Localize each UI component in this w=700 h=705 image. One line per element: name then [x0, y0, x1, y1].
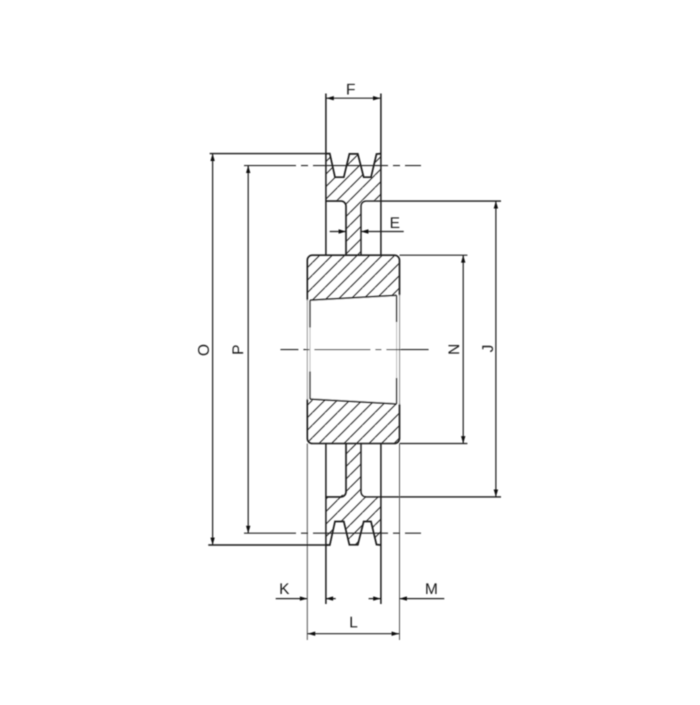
rim left edge bottom: [325, 444, 327, 605]
dimension N: [462, 255, 464, 443]
bore top taper line: [310, 295, 397, 300]
pitch line top (dash-dot): [244, 165, 421, 167]
hatch: top rim band: [326, 154, 381, 202]
bore bottom taper line: [310, 399, 397, 404]
label F: [347, 84, 355, 95]
hatch: bottom web column: [341, 444, 366, 497]
rim left edge top: [325, 94, 327, 256]
rim inner surface top-right with fillet, extends right (J ext): [361, 201, 501, 255]
OD line bottom (O ext): [208, 544, 328, 546]
hub face extension lines to bottom (K/L/M ext): [306, 444, 308, 641]
hub bottom line extension right (N ext): [400, 443, 468, 445]
rim inner surface bottom-left with fillet: [326, 444, 346, 497]
hub top line extension right (N ext): [400, 254, 468, 256]
dimension M: [369, 598, 445, 600]
label L: [350, 617, 357, 628]
bore left end verticals: [309, 300, 311, 399]
hatch: top web column: [341, 201, 366, 255]
label P: [232, 345, 243, 353]
bore white area: [306, 295, 400, 404]
rim inner surface top-left with fillet: [326, 201, 346, 255]
hub face thin lines through bore: [306, 300, 308, 400]
dimension P: [247, 166, 249, 534]
hatch: hub bottom band: [307, 399, 399, 444]
label M: [426, 583, 436, 594]
dimension F: [326, 97, 381, 99]
hatch: bottom rim band: [326, 497, 381, 545]
top rim groove profile: [326, 154, 381, 178]
center axis line (dash-dot): [280, 349, 428, 351]
dimension L: [307, 633, 399, 635]
dimension K: [276, 598, 336, 600]
dimension E: [330, 231, 404, 233]
label K: [280, 583, 289, 594]
label O: [198, 345, 209, 356]
hub outline: [307, 255, 399, 443]
label N: [448, 345, 459, 354]
label E: [391, 217, 399, 228]
hatch: hub top band: [307, 255, 399, 300]
dimension O: [212, 154, 214, 545]
rim right edge bottom: [380, 444, 382, 605]
dimension J: [495, 201, 497, 497]
pitch line bottom (dash-dot): [244, 532, 421, 534]
label J: [482, 346, 493, 352]
rim right edge top: [380, 94, 382, 256]
rim inner surface bottom-right with fillet, extends right (J ext): [361, 444, 501, 497]
bore right end verticals: [396, 295, 398, 404]
bottom rim groove profile: [326, 522, 381, 546]
OD line top (O ext): [210, 153, 326, 155]
